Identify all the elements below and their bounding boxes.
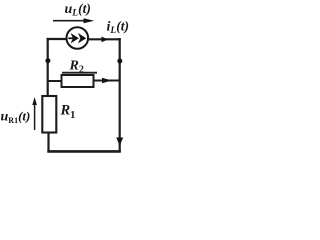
svg-text:uR1(t): uR1(t) [1, 108, 31, 125]
voltage reference arrow for u_L(t) [53, 20, 85, 22]
wire: left vertical lower (R1 to bottom corner) [47, 133, 49, 153]
wire: top-right segment (source to top-right corner) [89, 38, 121, 40]
current arrow on R2 branch [102, 78, 112, 84]
node: junction dot on right wire [117, 59, 122, 64]
wire: bottom horizontal [47, 150, 121, 153]
svg-text:R1: R1 [60, 103, 76, 121]
node: junction dot on left wire [45, 58, 50, 63]
wire: top-left segment (corner to source) [47, 38, 66, 40]
wire: left vertical upper (corner down to R1) [47, 38, 49, 97]
svg-text:uL(t): uL(t) [65, 1, 91, 19]
current arrow (down) on right wire near bottom [116, 138, 123, 146]
wire: R2 branch right (box to right wire) [94, 80, 121, 82]
wire: right vertical [119, 38, 121, 152]
wire: R2 branch left (left wire to R2 box) [48, 80, 62, 82]
svg-text:iL(t): iL(t) [107, 18, 129, 36]
current arrow i_L(t) on top wire [102, 37, 109, 43]
source: circle of current source [67, 27, 89, 49]
resistor R1 (vertical box) [42, 96, 56, 133]
source: double chevron arrow inside circle [68, 37, 74, 39]
label R2 underline mark (dark bar above box) [62, 72, 97, 74]
resistor R2 (horizontal box) [62, 75, 94, 87]
svg-text:R2: R2 [69, 59, 84, 76]
voltage arrow u_R1(t) (points up) [34, 100, 36, 130]
